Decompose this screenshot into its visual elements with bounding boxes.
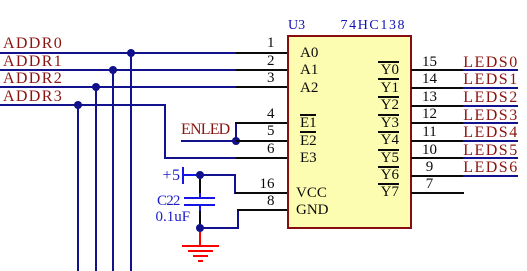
pin number 13 <box>421 90 438 105</box>
net label LEDS0 <box>463 55 519 71</box>
wire ADDR0 vertical drop <box>130 53 132 271</box>
pin number 15 <box>421 55 438 70</box>
pin name E1 overline <box>300 114 316 116</box>
wire net LEDS6 <box>463 175 518 177</box>
wire +5 junction to corner <box>200 174 236 176</box>
pin number 9 <box>421 160 438 175</box>
pin name E2 <box>300 134 317 149</box>
part number 74HC138 <box>341 19 407 33</box>
pin name Y3 overline <box>378 114 399 116</box>
wire corner up to pin8 row <box>237 210 239 229</box>
pin name Y0 overline <box>378 61 399 63</box>
pin name E1 <box>300 116 317 131</box>
junction ADDR3 <box>74 101 82 109</box>
net label ADDR3 <box>3 89 63 105</box>
ground bar 3 <box>193 255 207 257</box>
pin 8 stub <box>237 209 289 211</box>
pin number 12 <box>421 107 438 122</box>
capacitor C22 refdes <box>157 194 180 209</box>
net label LEDS2 <box>463 90 519 106</box>
net label LEDS6 <box>463 160 519 176</box>
power +5 label <box>163 168 181 184</box>
net label ADDR0 <box>3 36 63 52</box>
pin name Y2 overline <box>378 96 399 98</box>
pin name Y3 <box>378 116 399 131</box>
pin name A1 <box>300 63 318 78</box>
pin number 8 <box>255 194 275 209</box>
pin name Y7 <box>378 185 399 200</box>
pin number 5 <box>255 124 275 139</box>
pin name Y4 overline <box>378 131 399 133</box>
net label ENLED <box>181 122 229 138</box>
junction +5 C22 <box>196 171 204 179</box>
pin name Y1 overline <box>378 78 399 80</box>
wire net ADDR2 horizontal <box>0 86 236 88</box>
pin 2 stub <box>236 69 289 71</box>
pin name Y6 <box>378 168 399 183</box>
wire net LEDS3 <box>463 122 518 124</box>
net label ADDR2 <box>3 71 63 87</box>
pin name GND <box>296 203 329 218</box>
ground bar 2 <box>188 250 214 252</box>
pin name Y7 overline <box>378 183 399 185</box>
pin number 7 <box>421 177 438 192</box>
wire net ADDR0 horizontal <box>0 52 236 54</box>
pin 12 stub <box>411 122 463 124</box>
wire +5 bar to junction <box>184 174 200 176</box>
pin number 10 <box>421 143 438 158</box>
pin number 4 <box>255 107 275 122</box>
wire net ADDR3 horizontal <box>0 104 166 106</box>
pin name A0 <box>300 46 318 61</box>
pin number 16 <box>255 177 275 192</box>
pin 9 stub <box>411 175 463 177</box>
wire net ENLED horizontal <box>181 140 236 142</box>
wire net LEDS5 <box>463 157 518 159</box>
pin name Y2 <box>378 98 399 113</box>
pin number 1 <box>255 36 275 51</box>
capacitor C22 bottom stub blue <box>199 205 201 210</box>
net label ADDR1 <box>3 54 63 70</box>
wire ADDR2 vertical drop <box>95 87 97 271</box>
pin name A2 <box>300 81 318 96</box>
pin name Y6 overline <box>378 166 399 168</box>
op-amp substitute: decoder IC U3 74HC138 body <box>287 35 412 230</box>
capacitor C22 bottom lead black <box>199 211 201 228</box>
pin 10 stub <box>411 157 463 159</box>
wire ADDR3 vertical drop <box>77 105 79 271</box>
pin number 6 <box>255 142 275 157</box>
ground bar 1 <box>182 245 219 247</box>
wire E1-E2 tie vertical <box>235 123 237 141</box>
pin name Y0 <box>378 63 399 78</box>
wire net ADDR1 horizontal <box>0 69 236 71</box>
wire net LEDS2 <box>463 105 518 107</box>
pin number 11 <box>421 125 438 140</box>
net label LEDS4 <box>463 125 519 141</box>
capacitor C22 top plate <box>184 197 215 199</box>
junction ADDR1 <box>109 66 117 74</box>
capacitor C22 top lead black <box>199 179 201 193</box>
pin number 14 <box>421 72 438 87</box>
pin 15 stub <box>411 69 463 71</box>
pin 1 stub <box>236 52 289 54</box>
wire net LEDS1 <box>463 87 518 89</box>
pin 11 stub <box>411 140 463 142</box>
pin 16 stub <box>235 192 289 194</box>
wire gnd junction to corner <box>200 227 239 229</box>
pin name Y5 overline <box>378 149 399 151</box>
pin name Y4 <box>378 133 399 148</box>
wire ADDR3 to pin6 horizontal <box>164 157 236 159</box>
pin 5 stub <box>236 140 289 142</box>
refdes U3 <box>288 19 305 33</box>
pin 13 stub <box>411 105 463 107</box>
junction ADDR2 <box>92 83 100 91</box>
wire ADDR1 vertical drop <box>112 70 114 271</box>
power +5 bar <box>182 167 184 184</box>
ground stem <box>199 232 201 245</box>
pin 14 stub <box>411 87 463 89</box>
junction GND C22 <box>196 224 204 232</box>
capacitor C22 value 0.1uF <box>156 210 191 225</box>
net label LEDS3 <box>463 108 519 124</box>
pin name VCC <box>296 186 327 201</box>
net label LEDS5 <box>463 143 519 159</box>
pin name Y5 <box>378 151 399 166</box>
capacitor C22 top stub blue <box>199 193 201 199</box>
pin number 3 <box>255 71 275 86</box>
wire ADDR3 corner vertical <box>164 105 166 159</box>
pin 7 stub <box>411 192 464 194</box>
wire net LEDS4 <box>463 140 518 142</box>
wire net LEDS0 <box>463 69 518 71</box>
junction ADDR0 <box>127 49 135 57</box>
pin number 2 <box>255 54 275 69</box>
pin name Y1 <box>378 81 399 96</box>
wire corner down to pin16 row <box>234 175 236 194</box>
pin 3 stub <box>236 86 289 88</box>
net label LEDS1 <box>463 72 519 88</box>
pin name E2 overline <box>300 131 316 133</box>
pin 4 stub <box>235 122 289 124</box>
pin name E3 <box>300 151 317 166</box>
ground bar 4 <box>198 260 203 262</box>
capacitor C22 bottom plate <box>184 204 215 206</box>
junction ENLED pin5 <box>232 137 240 145</box>
pin 6 stub <box>236 157 289 159</box>
